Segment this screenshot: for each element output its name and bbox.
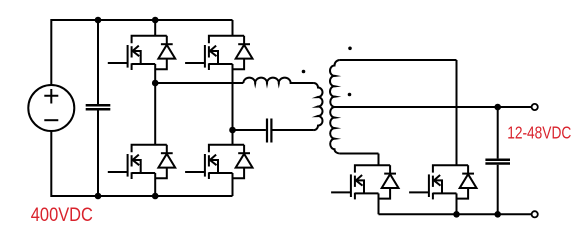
Q1 drain wire [154, 20, 156, 36]
output terminal plus [532, 104, 538, 110]
capacitor C1 bottom wire [97, 110, 99, 196]
capacitor C1 top wire [97, 20, 99, 104]
capacitor C3 top wire [497, 107, 499, 158]
wire secondary bottom rail [379, 213, 532, 215]
Q3 drain wire [154, 83, 156, 145]
wire node A to inductor [155, 82, 243, 84]
capacitor C3 plates [485, 160, 510, 164]
junction top rail Q1 [152, 17, 159, 24]
secondary cusp tails [335, 75, 342, 140]
capacitor C3 bottom wire [497, 165, 499, 215]
junction secondary rail C3 [494, 211, 501, 218]
V1 minus sign [44, 119, 58, 121]
transistor Q6 [409, 165, 476, 199]
transistor Q5 [331, 165, 398, 199]
wire secondary bottom [340, 153, 379, 155]
capacitor C2 left wire [233, 129, 266, 131]
junction node A [152, 80, 159, 87]
Q1 source wire [154, 64, 156, 83]
output terminal minus [532, 211, 538, 217]
wire center tap to output plus [335, 106, 532, 108]
transformer T1 secondary winding [330, 60, 340, 154]
Q6 drain wire [456, 60, 458, 165]
svg-text:400VDC: 400VDC [31, 204, 93, 226]
junction secondary rail Q6 [453, 211, 460, 218]
phase dot secondary top [348, 47, 352, 51]
wire bottom rail [51, 131, 232, 196]
transistor Q3 [108, 145, 175, 179]
transformer T1 primary winding [314, 83, 323, 130]
transistor Q1 [108, 36, 175, 70]
Q5 drain wire [378, 154, 380, 166]
capacitor C2 right wire [273, 129, 314, 131]
junction node B cap [229, 127, 236, 134]
inductor L1 [243, 78, 313, 83]
Q5 source wire [378, 193, 380, 214]
voltage source V1 [28, 85, 74, 131]
wire leg B vertical [232, 64, 234, 145]
wire secondary top [340, 59, 457, 61]
phase dot primary [302, 70, 306, 74]
capacitor C1 plates [86, 105, 111, 109]
V1 plus sign [44, 89, 58, 104]
junction top rail C1 [95, 17, 102, 24]
transistor Q4 [185, 145, 252, 179]
junction output plus C3 [494, 104, 501, 111]
svg-text:12-48VDC: 12-48VDC [507, 124, 571, 143]
junction bottom rail C1 [95, 193, 102, 200]
junction bottom rail Q3 [152, 193, 159, 200]
Q3 source wire [154, 173, 156, 196]
capacitor C2 plates [267, 119, 271, 143]
Q2 drain wire [232, 20, 234, 36]
primary cusp tails [312, 96, 318, 117]
Q6 source wire [456, 193, 458, 214]
phase dot secondary center [348, 93, 352, 97]
inductor L1 cusp tails [254, 83, 280, 89]
Q4 source wire [232, 173, 234, 196]
wire top rail [51, 20, 232, 85]
transistor Q2 [185, 36, 252, 70]
